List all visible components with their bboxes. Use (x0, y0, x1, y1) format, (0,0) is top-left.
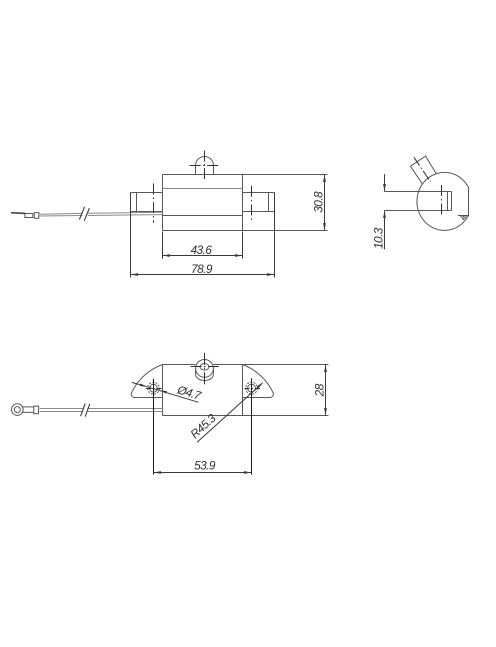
svg-text:10.3: 10.3 (372, 227, 386, 249)
svg-text:43.6: 43.6 (191, 243, 213, 257)
svg-text:53.9: 53.9 (194, 458, 216, 472)
svg-text:78.9: 78.9 (191, 262, 213, 276)
svg-text:30.8: 30.8 (312, 191, 326, 213)
svg-text:28: 28 (312, 383, 326, 397)
